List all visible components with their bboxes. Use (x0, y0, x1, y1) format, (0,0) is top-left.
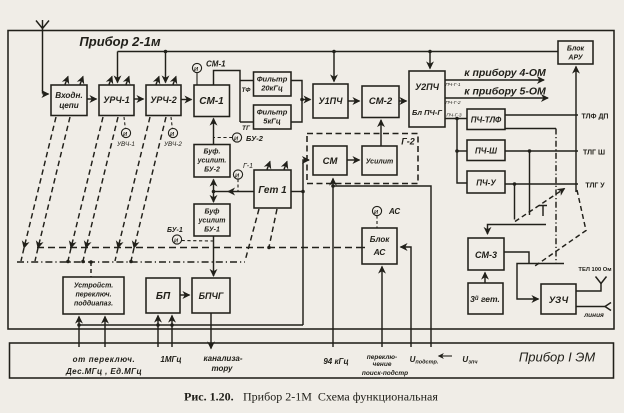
svg-text:УВЧ-1: УВЧ-1 (116, 141, 135, 148)
svg-text:Uзпч: Uзпч (462, 355, 478, 366)
measurement point И АС (372, 206, 381, 228)
wire branch to ПЧ-Ш ПЧ-У (457, 119, 467, 184)
block ПЧ-Ш (467, 140, 505, 161)
wire СМ to Усилит (347, 159, 360, 161)
svg-text:УРЧ-1: УРЧ-1 (103, 95, 129, 105)
svg-text:ТЛГ Ш: ТЛГ Ш (583, 150, 605, 157)
svg-text:Усилит: Усилит (366, 159, 393, 166)
svg-text:канализа-: канализа- (203, 354, 242, 363)
wire к прибору 4-ОМ (445, 79, 544, 81)
switch contact stub (539, 206, 547, 217)
svg-text:ТФ: ТФ (242, 87, 252, 94)
wire БУ-2 to СМ-1 (213, 119, 215, 145)
wire УЗЧ to линия (576, 306, 605, 308)
measurement point И СМ-1 (192, 63, 201, 85)
measurement point И УВЧ-1 (121, 117, 130, 138)
dashed diagonal Гет-1 2 (269, 209, 277, 247)
svg-text:Блок: Блок (567, 46, 585, 53)
block Блок АРУ (558, 41, 593, 64)
wire СМ-2 to У2ПЧ (399, 100, 407, 102)
block У1ПЧ (313, 84, 348, 118)
junction dots АРУ bus (164, 50, 432, 54)
wire Гет-1 to СМ Г-2 (303, 160, 309, 325)
svg-text:1МГц: 1МГц (160, 355, 181, 364)
svg-text:АС: АС (388, 207, 400, 216)
switch contact from ТЛГ У (514, 184, 516, 220)
block Фильтр 20кГц (254, 72, 292, 96)
wire antenna to Входн.цепи (42, 51, 44, 53)
svg-text:Прибор I ЭМ: Прибор I ЭМ (519, 350, 596, 365)
caption Рис. 1.20 (184, 390, 438, 404)
svg-text:цепи: цепи (59, 101, 79, 110)
wire АРУ feed vertical (575, 67, 577, 193)
wire Входн.цепи to УРЧ-1 (87, 98, 97, 100)
wire strip to Устройст 2 (104, 317, 106, 348)
wire 94кГц to СМ Г-2 (332, 179, 334, 348)
block СМ-2 (362, 86, 399, 118)
block СМ-3 (468, 238, 504, 270)
svg-text:Блок: Блок (370, 235, 391, 244)
svg-text:БПЧГ: БПЧГ (199, 291, 224, 301)
wire УРЧ-1 to УРЧ-2 (134, 98, 144, 100)
svg-text:к прибору 4-ОМ: к прибору 4-ОМ (464, 67, 546, 79)
svg-text:усилит.: усилит. (197, 158, 227, 165)
svg-text:СМ-1: СМ-1 (199, 96, 224, 107)
svg-text:линия: линия (583, 312, 604, 319)
dashed band-switch bus upper (37, 247, 362, 249)
wire ПЧ-У out to ТЛГ У (505, 183, 578, 185)
svg-text:ПЧ-Г-1: ПЧ-Г-1 (445, 82, 461, 88)
wire У1ПЧ to СМ-2 (348, 100, 360, 102)
wire СМ-3 out (504, 252, 529, 264)
svg-text:Uподстр.: Uподстр. (410, 355, 439, 366)
switch contact from ТЛГ Ш (529, 151, 531, 215)
switch wiper dashed right (534, 190, 587, 267)
antenna (36, 20, 49, 94)
svg-text:Рис. 1.20.: Рис. 1.20. (184, 390, 234, 404)
svg-text:20кГц: 20кГц (260, 84, 283, 93)
svg-text:БУ-1: БУ-1 (167, 227, 183, 234)
block УРЧ-2 (146, 85, 181, 116)
terminal линия fork (605, 303, 611, 311)
svg-text:ПЧ-Г-3: ПЧ-Г-3 (446, 113, 462, 119)
measurement point И УВЧ-2 (168, 117, 177, 138)
svg-text:СМ-3: СМ-3 (475, 250, 497, 260)
svg-text:УЗЧ: УЗЧ (549, 295, 569, 306)
svg-text:от переключ.: от переключ. (73, 355, 136, 364)
svg-text:Дес.МГц , Ед.МГц: Дес.МГц , Ед.МГц (65, 367, 142, 376)
junction dots tuning bus (66, 246, 271, 264)
block Устройст. переключ. поддиапаз. (63, 277, 124, 314)
wire БУ-1 to БПЧГ (213, 236, 215, 276)
tuning arrows УРЧ-1 (109, 77, 129, 85)
block СМ-1 (194, 85, 230, 117)
wire Гет-1 to БУ-2 БУ-1 (212, 180, 216, 203)
svg-text:поиск-подстр: поиск-подстр (362, 369, 408, 377)
svg-text:Входн.: Входн. (55, 91, 82, 100)
frame Прибор 2-1М border (8, 31, 614, 330)
svg-text:БУ-2: БУ-2 (204, 167, 220, 174)
svg-text:5кГц: 5кГц (263, 117, 281, 126)
wire Uзпч branch (333, 186, 431, 347)
dashed wire АС line (362, 247, 365, 249)
svg-text:СМ-1: СМ-1 (206, 60, 226, 69)
dashed box Г-2 (307, 134, 418, 184)
wire БП to БПЧГ (180, 294, 190, 296)
svg-text:3й гет.: 3й гет. (470, 294, 500, 304)
svg-text:переклю-: переклю- (367, 354, 397, 361)
wire УЗЧ to ТЕЛ (576, 284, 601, 292)
svg-text:Буф: Буф (205, 209, 220, 216)
svg-text:Буф.: Буф. (204, 149, 221, 156)
wire АРУ drop to У2ПЧ (429, 52, 431, 69)
svg-text:ПЧ-Ш: ПЧ-Ш (475, 147, 497, 156)
wire переключение to Блок АС (381, 267, 383, 348)
wire Uподстр to Блок АС (401, 247, 412, 347)
frame Прибор 1-ЭМ strip (10, 343, 614, 378)
svg-text:СМ-2: СМ-2 (369, 96, 393, 107)
wire strip to БП 1 (157, 316, 159, 348)
tuning arrows УРЧ-2 (156, 77, 176, 85)
svg-text:ПЧ-ТЛФ: ПЧ-ТЛФ (471, 116, 502, 125)
block ПЧ-ТЛФ (467, 109, 505, 130)
dashed diagonal УРЧ-2 2 (134, 117, 166, 248)
wire АРУ drop to УРЧ-1 (117, 52, 119, 83)
block БПЧГ (192, 278, 230, 313)
svg-text:к прибору 5-ОМ: к прибору 5-ОМ (464, 86, 546, 98)
svg-text:Гет 1: Гет 1 (258, 185, 287, 196)
block Входн. цепи (51, 85, 87, 116)
svg-text:ТЕЛ 100 Ом: ТЕЛ 100 Ом (578, 267, 611, 273)
wire к прибору 5-ОМ (445, 97, 548, 99)
tuning arrows Входн.цепи (65, 77, 83, 85)
dashed diagonal Входн.цепи 2 (38, 117, 70, 248)
svg-text:поддиапаз.: поддиапаз. (74, 300, 113, 308)
block СМ (Г-2) (313, 146, 347, 175)
mechanical link dash-dot (555, 129, 557, 265)
svg-text:ТГ: ТГ (242, 125, 251, 132)
wire БПЧГ to канализатору (210, 313, 212, 349)
measurement point И Г-1 (233, 170, 242, 192)
wire filters merge (291, 81, 302, 123)
svg-text:Устройст.: Устройст. (74, 282, 113, 290)
measurement point И БУ-2 (214, 133, 242, 142)
svg-text:усилит: усилит (198, 218, 226, 225)
block Усилит (Г-2) (362, 146, 397, 175)
dashed diagonal УРЧ-1 1 (71, 117, 103, 248)
svg-text:ТЛФ ДП: ТЛФ ДП (582, 114, 609, 121)
wire УРЧ-2 to СМ-1 (181, 99, 192, 101)
wire Гет-1 output right (291, 191, 303, 193)
svg-text:У2ПЧ: У2ПЧ (415, 82, 440, 92)
wire ПЧ-Ш out to ТЛГ Ш (505, 150, 578, 152)
svg-text:тору: тору (211, 364, 233, 373)
block Буф. усилит. БУ-1 (194, 204, 230, 236)
svg-text:чение: чение (373, 361, 392, 368)
svg-text:УРЧ-2: УРЧ-2 (150, 95, 176, 105)
tuning arrows Гет 1 (267, 162, 287, 170)
svg-text:ТЛГ У: ТЛГ У (585, 183, 605, 190)
dashed diagonal Входн.цепи 1 (24, 117, 56, 248)
block УЗЧ (541, 284, 576, 314)
svg-text:Фильтр: Фильтр (257, 75, 288, 84)
svg-text:БУ-1: БУ-1 (204, 227, 220, 234)
svg-text:Г-2: Г-2 (401, 137, 415, 147)
measurement point И БУ-1 (172, 235, 213, 244)
wire ПЧ-Г-3 output (445, 118, 467, 120)
wire stub to Фильтр 20кГц (240, 80, 254, 82)
dashed stub to Устройст.переключ (90, 262, 92, 277)
svg-text:Прибор 2-1м: Прибор 2-1м (79, 34, 161, 49)
wire Гет-1 output left (228, 191, 254, 193)
svg-text:БУ-2: БУ-2 (246, 134, 264, 143)
block Гет 1 (254, 170, 291, 208)
svg-text:У1ПЧ: У1ПЧ (319, 96, 344, 106)
wire Усилит to СМ-2 (380, 120, 382, 146)
wire СМ-1 to filters (214, 71, 241, 123)
svg-text:БП: БП (156, 291, 171, 302)
svg-text:ПЧ-У: ПЧ-У (476, 179, 496, 188)
wire 1МГц strip to БП 2 (171, 316, 173, 348)
wire АРУ drop to У1ПЧ (333, 52, 335, 82)
svg-text:АС: АС (373, 247, 387, 257)
block УРЧ-1 (99, 85, 134, 116)
block БП (146, 278, 180, 313)
wire strip to Устройст 1 (78, 317, 80, 348)
svg-text:Г-1: Г-1 (243, 163, 253, 170)
dashed diagonal УРЧ-1 2 (86, 117, 118, 248)
svg-text:Фильтр: Фильтр (257, 108, 288, 117)
wire ПЧ-ТЛФ out to ТЛФ ДП (505, 114, 578, 116)
dash-dot tuning bus lower (17, 261, 245, 263)
svg-text:СМ: СМ (323, 156, 339, 167)
wire Uзпч arrow (439, 355, 453, 357)
svg-text:Прибор 2-1М Схема функциональ: Прибор 2-1М Схема функциональная (243, 390, 438, 404)
wire АРУ bus (118, 51, 559, 53)
svg-text:УВЧ-2: УВЧ-2 (163, 141, 182, 148)
block Блок АС (362, 228, 397, 264)
svg-text:ПЧ-Г-2: ПЧ-Г-2 (445, 100, 461, 106)
wire switch common to УЗЧ (517, 264, 564, 300)
terminal ТЕЛ fork (596, 277, 607, 284)
block ПЧ-У (467, 171, 505, 193)
svg-text:АРУ: АРУ (567, 55, 583, 62)
svg-text:Бл ПЧ-Г: Бл ПЧ-Г (412, 108, 442, 117)
wire merge to У1ПЧ (302, 99, 311, 101)
switch wiper dashed (515, 189, 565, 222)
block 3-й гет. (468, 283, 503, 314)
wire stub to Фильтр 5кГц (240, 121, 254, 123)
svg-text:94 кГц: 94 кГц (323, 357, 348, 366)
block У2ПЧ / Бл ПЧ-Г (409, 71, 445, 127)
wire 3-й гет. to СМ-3 (484, 273, 486, 284)
dashed diagonal Гет-1 1 (245, 209, 259, 261)
block Буф. усилит. БУ-2 (194, 145, 230, 178)
wire switch common to СМ-3 (488, 225, 547, 235)
wire Гет-1 bottom distribution (79, 324, 303, 326)
wire АРУ drop to УРЧ-2 (165, 52, 167, 83)
block Фильтр 5кГц (254, 105, 292, 129)
dashed diagonal УРЧ-2 1 (118, 117, 150, 248)
svg-text:переключ.: переключ. (75, 292, 111, 299)
wire ПЧ-ТЛФ second out (505, 128, 556, 130)
